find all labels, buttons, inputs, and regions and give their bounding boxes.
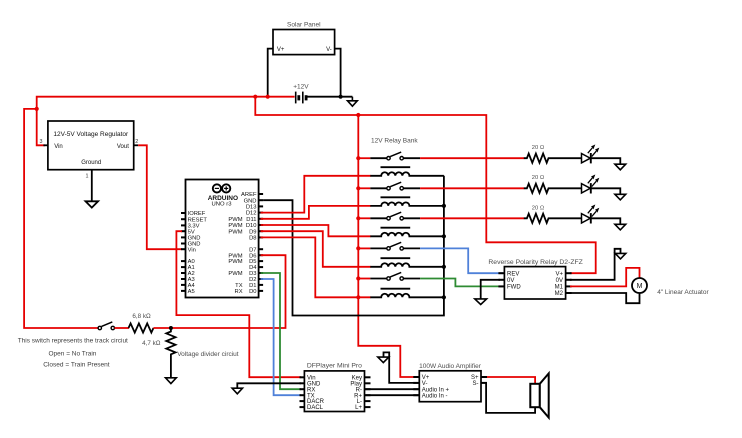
- svg-text:Ground: Ground: [81, 160, 101, 166]
- wire resistor to junction: [153, 327, 172, 329]
- svg-text:4" Linear Actuator: 4" Linear Actuator: [657, 289, 709, 296]
- wire Arduino GND to relay coil common: [263, 176, 444, 316]
- svg-text:Open = No Train: Open = No Train: [49, 351, 97, 358]
- wire LED 2 to ground: [591, 188, 621, 194]
- svg-text:M: M: [637, 283, 643, 290]
- relay K1 switch: [356, 152, 420, 160]
- wire M1 to motor: [570, 268, 640, 287]
- wire S- to speaker: [486, 383, 535, 413]
- wire M2 to motor: [570, 293, 640, 303]
- wire +12V trunk to regulator Vin: [37, 97, 295, 146]
- svg-text:RESET: RESET: [188, 217, 208, 223]
- svg-text:REV: REV: [507, 271, 519, 277]
- wire D2 to DFPlayer TX: [261, 279, 302, 395]
- svg-text:V-: V-: [326, 47, 332, 53]
- svg-text:D0: D0: [249, 289, 256, 295]
- pin number 3: [40, 139, 43, 145]
- resistor R5 4.7k: [142, 328, 175, 378]
- svg-text:PWM: PWM: [228, 217, 242, 223]
- relay K4 coil: [370, 258, 444, 267]
- svg-text:20 Ω: 20 Ω: [532, 175, 545, 181]
- wire battery - to ground: [308, 96, 353, 98]
- junction divider node A0: [169, 326, 173, 330]
- svg-text:D12: D12: [246, 211, 257, 217]
- solar panel PV1: [273, 21, 335, 54]
- resistor R4 6.8k: [129, 313, 154, 333]
- svg-text:0V: 0V: [556, 278, 563, 284]
- svg-text:6,8 kΩ: 6,8 kΩ: [132, 313, 151, 320]
- svg-text:V+: V+: [277, 47, 285, 53]
- junction battery rail tap: [253, 95, 257, 99]
- ground (LED 2): [615, 194, 626, 200]
- junction regulator/track branch: [35, 107, 39, 111]
- junction D8 feed / bus: [356, 295, 360, 299]
- label 4 inch Linear Actuator: [657, 289, 709, 296]
- DFPlayer Mini Pro U3: [300, 362, 371, 411]
- motor M1 (linear actuator): [632, 278, 647, 293]
- svg-text:DFPlayer Mini Pro: DFPlayer Mini Pro: [307, 362, 362, 369]
- svg-text:20 Ω: 20 Ω: [532, 205, 545, 211]
- wire switch 4 to REV (blue): [420, 248, 503, 273]
- wire 5V to DFPlayer Vin: [176, 231, 301, 377]
- pin number 2: [135, 139, 138, 145]
- junction solar V+ tap: [266, 95, 270, 99]
- svg-text:2: 2: [135, 139, 138, 145]
- wire +12V rail to reverse-relay V+: [255, 97, 595, 274]
- note line 2: [49, 351, 97, 358]
- junction coil common: [442, 234, 446, 238]
- wire D9 to relay coil 4: [261, 231, 371, 267]
- svg-text:PWM: PWM: [228, 271, 242, 277]
- svg-text:100W Audio Amplifier: 100W Audio Amplifier: [419, 363, 482, 370]
- LED D2: [582, 175, 599, 193]
- svg-text:Audio In -: Audio In -: [422, 393, 448, 399]
- wire regulator ground: [91, 170, 93, 202]
- reverse polarity relay K6: [488, 259, 582, 299]
- resistor R1 20 ohm: [524, 145, 582, 163]
- Arduino UNO U1: [181, 180, 263, 298]
- wire solar V- down: [335, 49, 341, 97]
- svg-text:UNO r3: UNO r3: [212, 202, 233, 208]
- svg-text:D9: D9: [249, 229, 256, 235]
- svg-text:A5: A5: [188, 289, 195, 295]
- label 12V Relay Bank: [371, 138, 418, 145]
- svg-text:0V: 0V: [507, 278, 514, 284]
- voltage regulator U2: [43, 121, 138, 170]
- svg-text:Vin: Vin: [54, 144, 63, 150]
- junction coil common: [442, 295, 446, 299]
- wire switch 1 to resistor: [420, 157, 524, 159]
- svg-text:D11: D11: [246, 217, 256, 223]
- relay K2 coil: [370, 197, 444, 206]
- svg-text:D10: D10: [246, 223, 257, 229]
- wire LED 1 to ground: [591, 158, 621, 164]
- svg-text:S-: S-: [473, 381, 479, 387]
- svg-text:12V-5V Voltage Regulator: 12V-5V Voltage Regulator: [53, 131, 129, 138]
- ground (reverse relay 0V left): [475, 299, 487, 305]
- wire switch 2 to resistor: [420, 187, 524, 189]
- resistor R2 20 ohm: [524, 175, 582, 193]
- svg-text:5V: 5V: [188, 229, 195, 235]
- ground (reverse relay 0V right): [615, 253, 626, 259]
- wire switch 3 to resistor: [420, 217, 524, 219]
- svg-text:Voltage divider circiut: Voltage divider circiut: [177, 351, 239, 358]
- svg-text:RX: RX: [235, 289, 243, 295]
- label voltage divider: [177, 351, 239, 358]
- speaker LS1: [530, 373, 548, 417]
- wire relay 0V to ground: [481, 280, 500, 299]
- wire Vout to Arduino Vin: [138, 145, 182, 249]
- svg-text:D13: D13: [246, 205, 257, 211]
- wire D6 to track circuit node: [172, 255, 286, 328]
- wire D10 to relay coil 3: [261, 225, 371, 236]
- resistor R3 20 ohm: [524, 205, 582, 223]
- svg-text:M1: M1: [555, 285, 564, 291]
- wire R+ to Audio In -: [365, 394, 420, 396]
- wire D11 to relay coil 2: [261, 206, 371, 219]
- svg-text:GND: GND: [188, 236, 201, 242]
- svg-text:L+: L+: [355, 405, 362, 411]
- svg-text:4,7 kΩ: 4,7 kΩ: [142, 340, 161, 347]
- ground (LED 1): [615, 164, 626, 170]
- svg-text:+12V: +12V: [293, 83, 309, 90]
- ground (DFPlayer GND): [232, 388, 242, 394]
- svg-text:GND: GND: [244, 198, 257, 204]
- wire LED 3 to ground: [591, 218, 621, 224]
- relay K5 switch: [356, 272, 420, 280]
- wire D12 to relay coil 1: [261, 176, 371, 213]
- wire switch to resistor 6.8k: [115, 327, 130, 329]
- note line 1: [18, 337, 128, 344]
- wire solar V+ to battery +: [268, 49, 273, 97]
- svg-text:This switch represents the tra: This switch represents the track circiut: [18, 337, 128, 344]
- relay K3 coil: [370, 228, 444, 237]
- ground (amp V-): [378, 357, 389, 363]
- svg-text:Solar Panel: Solar Panel: [287, 21, 321, 28]
- relay K4 switch: [356, 242, 420, 250]
- svg-text:Reverse Polarity Relay D2-ZFZ: Reverse Polarity Relay D2-ZFZ: [488, 259, 582, 266]
- wire amp V- to ground: [384, 352, 421, 383]
- pin number 1: [86, 174, 89, 180]
- svg-text:Vin: Vin: [188, 247, 196, 253]
- svg-text:DACL: DACL: [307, 405, 324, 411]
- svg-text:Closed = Train Present: Closed = Train Present: [43, 361, 109, 368]
- svg-text:PWM: PWM: [228, 223, 242, 229]
- svg-text:Vout: Vout: [117, 144, 129, 150]
- svg-text:PWM: PWM: [228, 259, 242, 265]
- ground (voltage divider): [166, 378, 177, 384]
- LED D1: [582, 145, 599, 163]
- ground (regulator): [86, 201, 99, 207]
- junction rail/bus: [356, 113, 360, 117]
- battery +12V: [293, 83, 309, 103]
- svg-text:V+: V+: [555, 271, 563, 277]
- svg-text:12V Relay Bank: 12V Relay Bank: [371, 138, 418, 145]
- ground (LED 3): [615, 224, 626, 230]
- relay K1 coil: [370, 167, 444, 176]
- track switch S1: [98, 322, 114, 330]
- svg-text:3: 3: [40, 139, 43, 145]
- svg-text:AREF: AREF: [241, 192, 257, 198]
- wire switch 5 to FWD (green): [420, 279, 503, 287]
- LED D3: [582, 205, 599, 223]
- note line 3: [43, 361, 109, 368]
- relay K2 switch: [356, 182, 420, 190]
- junction coil common: [442, 265, 446, 269]
- wire relay 0V right to ground: [570, 249, 621, 280]
- svg-text:20 Ω: 20 Ω: [532, 145, 545, 151]
- svg-text:PWM: PWM: [228, 229, 242, 235]
- junction coil common: [442, 204, 446, 208]
- wire R- to Audio In +: [365, 388, 420, 390]
- wire +12V relay bus: [358, 115, 413, 377]
- svg-text:M2: M2: [555, 291, 564, 297]
- svg-text:1: 1: [86, 174, 89, 180]
- audio amplifier U4: [413, 363, 487, 401]
- wire D8 to relay coil 5: [261, 237, 371, 297]
- svg-text:IOREF: IOREF: [188, 211, 206, 217]
- wire DFPlayer GND to ground: [237, 383, 301, 388]
- ground (battery/solar): [348, 97, 358, 107]
- wire +12V branch to track switch: [24, 109, 98, 328]
- svg-text:FWD: FWD: [507, 285, 521, 291]
- wire S+ to speaker: [487, 377, 535, 384]
- svg-text:V-: V-: [422, 381, 428, 387]
- junction solar V- / battery -: [339, 95, 343, 99]
- relay K5 coil: [370, 289, 444, 298]
- relay K3 switch: [356, 212, 420, 220]
- svg-text:D8: D8: [249, 236, 256, 242]
- wire D3 to DFPlayer RX: [261, 273, 302, 389]
